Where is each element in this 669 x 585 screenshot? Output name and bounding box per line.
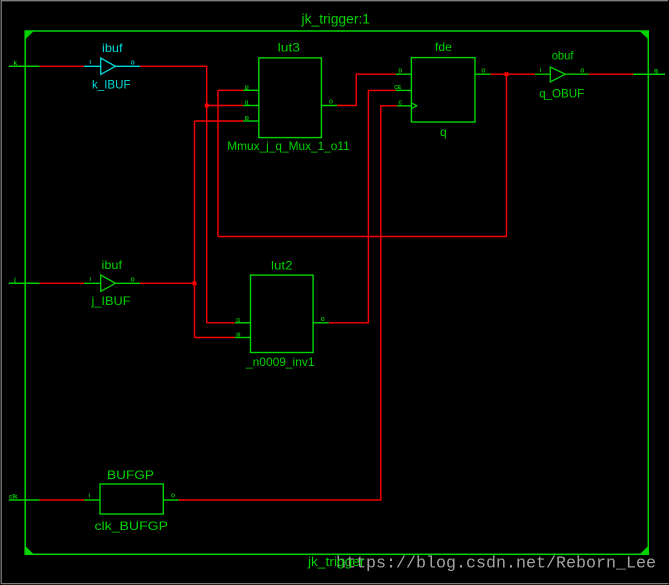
wire clk red to BUFGP <box>40 499 85 501</box>
wire j vertical <box>194 121 196 338</box>
wire j to lut3 I0 <box>195 120 244 122</box>
lut3 pin stub O <box>321 105 337 107</box>
wire j to lut2 I0 <box>195 337 235 339</box>
lut3 pin stub I2 <box>243 89 259 91</box>
wire feedback q vertical <box>506 74 508 236</box>
svg-text:I2: I2 <box>245 85 249 91</box>
fde box <box>411 58 475 122</box>
lut2 pin stub O <box>313 322 329 324</box>
BUFGP box <box>100 484 163 514</box>
lut2 box <box>251 275 314 352</box>
svg-text:jk_trigger:1: jk_trigger:1 <box>300 11 370 26</box>
corner marker bottom-right <box>640 546 649 554</box>
fde pin stub O <box>475 73 491 75</box>
junction k/lut3 <box>205 104 209 108</box>
corner marker top-right <box>640 31 649 39</box>
wire clk port green <box>9 499 40 501</box>
lut3 pin stub I0 <box>243 120 259 122</box>
svg-text:CE: CE <box>394 85 402 91</box>
corner marker top-left <box>25 31 34 39</box>
svg-text:lut2: lut2 <box>271 259 293 273</box>
wire lut3.O to fde.D <box>337 74 396 105</box>
wire j red to ibuf <box>40 282 85 284</box>
wire clk to fde.C <box>179 106 397 500</box>
fde pin stub C <box>397 105 412 107</box>
svg-text:O: O <box>321 317 325 323</box>
svg-text:q_OBUF: q_OBUF <box>539 86 584 100</box>
svg-text:O: O <box>580 69 584 75</box>
wire j ibuf out <box>140 282 195 284</box>
svg-text:lut3: lut3 <box>278 41 301 55</box>
svg-text:jk_trigger: jk_trigger <box>307 555 365 569</box>
svg-text:O: O <box>131 278 135 284</box>
wire feedback q up <box>217 90 219 236</box>
svg-text:O: O <box>131 61 135 67</box>
svg-text:fde: fde <box>435 40 452 54</box>
svg-text:q: q <box>654 68 658 75</box>
svg-text:I0: I0 <box>245 116 249 122</box>
wire fde.O to obuf <box>491 73 535 75</box>
svg-text:C: C <box>399 100 403 106</box>
lut2 pin stub I1 <box>235 322 251 324</box>
junction j <box>193 281 197 285</box>
corner marker bottom-left <box>25 546 34 554</box>
lut3 box <box>259 58 322 138</box>
wire q port green <box>633 73 665 75</box>
svg-text:k_IBUF: k_IBUF <box>92 78 131 92</box>
svg-text:_n0009_inv1: _n0009_inv1 <box>245 355 315 369</box>
buffer j_IBUF <box>84 275 140 291</box>
lut2 pin stub I0 <box>235 337 251 339</box>
svg-text:O: O <box>482 69 486 75</box>
svg-text:I1: I1 <box>236 318 240 324</box>
fde pin stub CE <box>396 89 412 91</box>
wire k red to ibuf <box>40 65 85 67</box>
svg-text:O: O <box>171 494 175 500</box>
svg-text:O: O <box>329 100 333 106</box>
junction fde.O <box>505 72 509 76</box>
BUFGP pin stub O <box>163 499 179 501</box>
wire lut2.O to fde.CE <box>329 90 396 322</box>
svg-text:I1: I1 <box>245 101 249 107</box>
wire obuf out red <box>589 73 633 75</box>
svg-text:ibuf: ibuf <box>102 258 123 272</box>
wire k port green <box>9 65 40 67</box>
fde pin stub D <box>396 73 412 75</box>
BUFGP pin stub I <box>84 499 100 501</box>
wire feedback q horizontal <box>218 236 507 238</box>
svg-text:BUFGP: BUFGP <box>107 468 154 482</box>
svg-text:obuf: obuf <box>552 49 574 63</box>
wire k to lut3 I1 <box>207 105 243 107</box>
clock triangle on C pin <box>411 103 416 109</box>
svg-text:D: D <box>399 69 403 75</box>
buffer k_IBUF (selected, cyan) <box>84 58 140 74</box>
svg-text:I0: I0 <box>236 333 240 339</box>
wire k to lut2 I1 <box>207 322 235 324</box>
svg-text:j_IBUF: j_IBUF <box>90 294 130 308</box>
lut3 pin stub I1 <box>243 105 259 107</box>
svg-text:ibuf: ibuf <box>102 41 123 55</box>
svg-text:Mmux_j_q_Mux_1_o11: Mmux_j_q_Mux_1_o11 <box>227 139 350 153</box>
wire k vertical <box>206 66 208 323</box>
wire k ibuf out <box>140 65 207 67</box>
svg-text:q: q <box>440 125 447 139</box>
svg-text:https://blog.csdn.net/Reborn_L: https://blog.csdn.net/Reborn_Lee <box>336 554 656 573</box>
svg-text:clk_BUFGP: clk_BUFGP <box>95 519 169 533</box>
wire feedback q to lut3.I2 <box>218 89 243 91</box>
wire j port green <box>9 282 40 284</box>
